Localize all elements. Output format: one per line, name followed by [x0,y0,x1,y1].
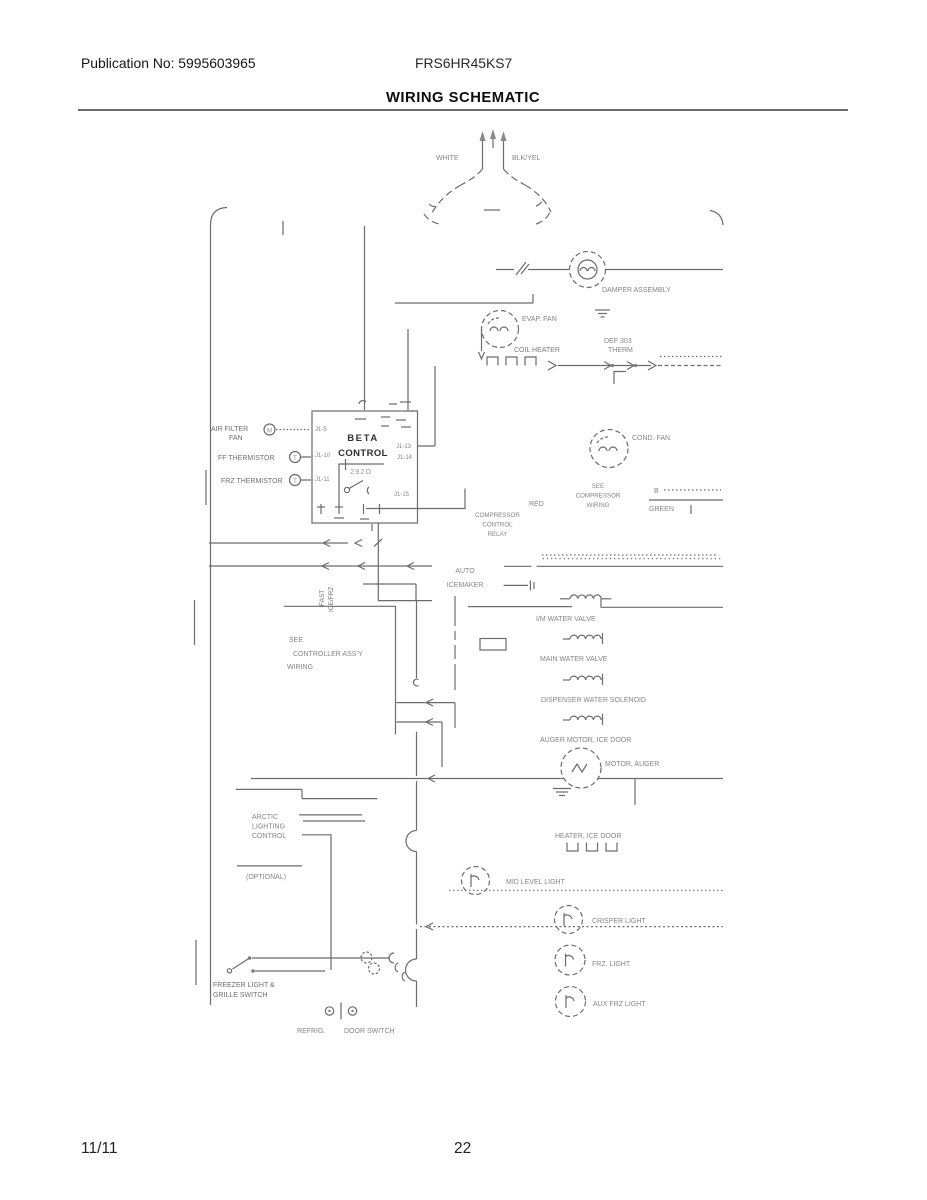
node damper supply connector [496,262,569,275]
svg-text:ICEMAKER: ICEMAKER [447,582,484,589]
wire lighting control drop [302,835,331,970]
svg-text:DOOR SWITCH: DOOR SWITCH [344,1028,395,1035]
switch S1 defrost test [344,481,369,495]
thermistor RT2 [290,475,312,486]
wire stray tick top [282,221,284,235]
svg-text:WIRING SCHEMATIC: WIRING SCHEMATIC [386,90,540,106]
lamp DS1 mid level light [462,867,490,895]
svg-text:MOTOR, AUGER: MOTOR, AUGER [605,761,659,768]
wire bus line A [209,539,382,547]
wire freezer section line [284,606,396,734]
connector block rectangle [480,639,506,651]
svg-text:(OPTIONAL): (OPTIONAL) [246,874,286,881]
svg-text:J1-14: J1-14 [397,455,413,461]
label FREEZER LIGHT GRILLE SWITCH [213,982,275,999]
svg-text:COIL HEATER: COIL HEATER [514,347,560,354]
solenoid L4 ice door [563,714,603,725]
lamp DS4 aux freezer light [556,987,586,1017]
svg-text:BETA: BETA [347,433,379,444]
svg-text:GRILLE SWITCH: GRILLE SWITCH [213,992,267,999]
svg-text:SEE: SEE [289,637,303,644]
svg-text:AUGER MOTOR, ICE DOOR: AUGER MOTOR, ICE DOOR [540,737,631,744]
svg-text:EVAP. FAN: EVAP. FAN [522,316,557,323]
svg-text:THERM: THERM [608,347,633,354]
svg-text:DEF 303: DEF 303 [604,338,632,345]
wire switch lower contact [255,970,325,972]
wire plug leads [483,150,504,169]
ground auger motor [553,789,571,796]
resistor ice door heater [567,843,617,852]
svg-text:ICE/FRZ: ICE/FRZ [328,587,335,612]
svg-text:AUTO: AUTO [455,568,475,575]
label REFRIG DOOR SWITCH [297,1028,395,1035]
wire shell bottom dash [484,209,500,211]
wire bottom dotted compressor [542,554,718,556]
svg-text:J1-5: J1-5 [315,427,327,433]
power cord shell outline [424,169,551,224]
svg-text:LIGHTING: LIGHTING [252,824,285,831]
wire dashed harness vertical [454,596,456,690]
solenoid L3 dispenser water valve [563,674,603,685]
label OPTIONAL [237,866,302,881]
wire control drop [363,523,432,601]
thermistor RT1 [290,452,312,463]
connector hooks [395,963,405,981]
svg-text:FAN: FAN [229,435,243,442]
wire lighting stubs right [299,815,365,821]
svg-text:REFRIG.: REFRIG. [297,1028,325,1035]
svg-text:COMPRESSOR: COMPRESSOR [475,512,520,519]
svg-text:GREEN: GREEN [649,506,674,513]
ground damper [595,310,610,317]
svg-text:FRZ. LIGHT: FRZ. LIGHT [592,961,631,968]
wire icemaker dotted to edge [543,558,721,560]
switch S2 freezer light grille [227,956,254,973]
svg-text:J1-11: J1-11 [315,477,330,483]
wire damper to right edge [606,269,723,271]
wire crisper feed lower [397,719,443,768]
svg-text:SEE: SEE [592,483,604,490]
svg-text:Publication No: 5995603965: Publication No: 5995603965 [81,55,256,71]
motor M2 air filter fan [264,424,275,435]
solenoid L1 icemaker water valve [560,595,612,599]
pin terminals bottom of control box [317,504,380,531]
svg-text:COMPRESSOR: COMPRESSOR [576,493,621,500]
svg-text:T: T [293,479,297,485]
svg-text:DAMPER ASSEMBLY: DAMPER ASSEMBLY [602,287,671,294]
svg-text:MAIN WATER VALVE: MAIN WATER VALVE [540,656,608,663]
svg-text:292Ω: 292Ω [350,467,372,476]
wire evap fan lead [479,329,485,359]
label AUTO ICEMAKER [447,568,484,589]
svg-text:T: T [293,456,297,462]
svg-text:M: M [267,428,272,434]
label SEE COMPRESSOR WIRING [576,483,621,509]
svg-text:COND. FAN: COND. FAN [632,435,670,442]
wire vertical feed left [364,226,366,410]
svg-text:FF THERMISTOR: FF THERMISTOR [218,455,275,462]
defrost thermostat line [558,357,723,385]
wire bus line B [209,563,432,570]
wire switch common [252,953,394,963]
wire green branch tick [690,505,692,514]
wire lighting stub upper [236,789,378,798]
wire crisper dashed [420,923,723,930]
svg-text:WHITE: WHITE [436,155,459,162]
solenoid L2 main water valve [563,633,603,644]
wire vertical feed mid [407,329,409,410]
header rule [78,109,848,111]
label LIGHTING CONTROL [252,814,286,840]
damper assembly DA1 [570,252,606,288]
lamp DS3 freezer light [555,945,585,975]
wire left margin marks [195,470,207,985]
svg-text:WIRING: WIRING [287,664,313,671]
svg-text:FREEZER LIGHT &: FREEZER LIGHT & [213,982,275,989]
wire crisper feed upper [397,699,456,728]
svg-text:FRZ THERMISTOR: FRZ THERMISTOR [221,478,283,485]
wire green solid [649,499,723,501]
svg-text:AUX FRZ LIGHT: AUX FRZ LIGHT [593,1001,646,1008]
svg-text:J1-10: J1-10 [315,453,331,459]
cabinet border top-right corner [710,211,723,226]
svg-text:BLK/YEL: BLK/YEL [512,155,541,162]
capacitor icemaker contact [504,580,534,590]
label COMPRESSOR CONTROL RELAY [475,512,520,538]
wire compressor relay feed [366,489,465,509]
cabinet border top-left corner [211,208,228,226]
label DEF 303 THERM [604,338,633,354]
svg-text:CONTROL: CONTROL [482,522,513,529]
wire icemaker segment [504,565,531,567]
resistor R1 292 ohm in control [339,459,384,505]
label FAST ICE/FRZ [319,587,335,612]
wire vertical feed right [418,366,436,446]
svg-text:DISPENSER WATER SOLENOID: DISPENSER WATER SOLENOID [541,697,646,704]
power plug P1 prongs [480,129,507,150]
svg-text:AIR FILTER: AIR FILTER [211,426,248,433]
connector plug circles [361,952,380,974]
lamp DS2 crisper light [555,906,583,934]
motor M4 auger [561,748,601,788]
wire icemaker solid to edge [537,565,723,567]
svg-text:J1-13: J1-13 [396,444,412,450]
svg-text:MID LEVEL LIGHT: MID LEVEL LIGHT [506,879,566,886]
wire air filter fan lead [276,429,311,431]
svg-text:11/11: 11/11 [81,1140,118,1157]
wire green dotted [664,489,721,491]
svg-text:CONTROL: CONTROL [338,448,388,459]
svg-text:HEATER, ICE DOOR: HEATER, ICE DOOR [555,833,621,840]
resistor defrost heater element [487,357,556,370]
svg-text:I/M WATER VALVE: I/M WATER VALVE [536,616,596,623]
svg-text:WIRING: WIRING [586,502,609,509]
svg-text:RED: RED [529,501,544,508]
svg-text:22: 22 [454,1140,471,1157]
svg-text:B: B [654,488,659,495]
wire damper branch to control [395,294,533,303]
label BETA CONTROL [338,433,388,459]
svg-text:RELAY: RELAY [488,531,508,538]
label AIR FILTER FAN [211,426,248,442]
switch S3 refrigerator door [325,1003,356,1020]
label SEE CONTROLLER ASS'Y WIRING [287,637,363,671]
control board U1 BETA CONTROL box [312,411,418,523]
svg-text:CONTROL: CONTROL [252,833,286,840]
svg-text:CRISPER LIGHT: CRISPER LIGHT [592,918,646,925]
wire mid level dotted [449,889,723,891]
svg-text:J1-15: J1-15 [394,492,410,498]
wire door liner line with hinge notches [406,601,419,1007]
evaporator fan motor M1 [482,311,519,348]
wire valve row to edge [601,599,723,608]
svg-text:FAST: FAST [319,590,326,606]
svg-text:ARCTIC: ARCTIC [252,814,278,821]
cabinet border left side [210,225,212,1005]
condenser fan motor M3 [590,430,628,468]
svg-text:CONTROLLER ASS’Y: CONTROLLER ASS’Y [293,651,363,658]
wire main lower bus [251,775,723,805]
pin marks top of control box [355,401,415,427]
svg-text:FRS6HR45KS7: FRS6HR45KS7 [415,55,513,71]
